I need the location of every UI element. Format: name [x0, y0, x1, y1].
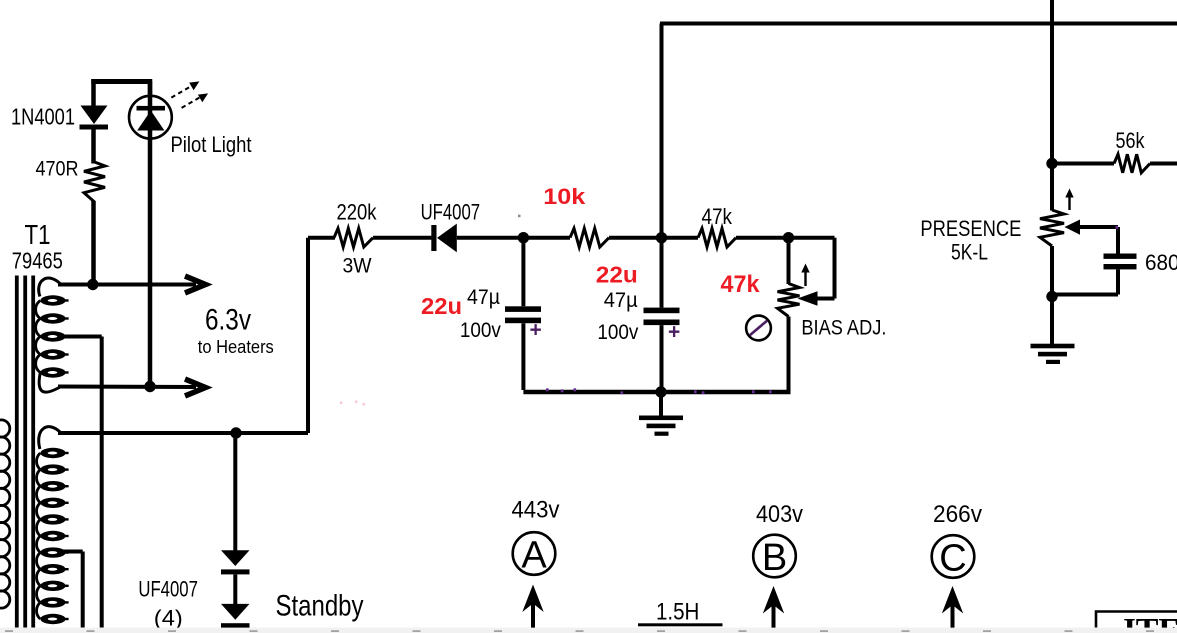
- capacitor 680n: [1104, 254, 1137, 259]
- wire node1 down: [521, 238, 525, 307]
- wire node2 to 47k: [665, 236, 698, 240]
- transformer HT winding: [39, 427, 61, 449]
- wire 10k to node2: [609, 236, 658, 240]
- wire wiper to cap: [1079, 225, 1118, 229]
- svg-text:470R: 470R: [36, 158, 79, 181]
- svg-text:T1: T1: [25, 219, 51, 250]
- capacitor C1 47u: [505, 306, 541, 312]
- potentiometer PRESENCE 5K-L: [1040, 210, 1064, 246]
- svg-text:BIAS ADJ.: BIAS ADJ.: [801, 317, 886, 340]
- svg-text:Standby: Standby: [276, 590, 364, 623]
- diode standby 1: [221, 550, 250, 566]
- wire node3 to pot: [787, 240, 791, 284]
- svg-text:PRESENCE: PRESENCE: [920, 216, 1021, 241]
- wire bias top loop: [789, 236, 835, 240]
- svg-text:47k: 47k: [702, 204, 733, 229]
- arrow A: [531, 600, 535, 633]
- terminal B: [753, 535, 796, 578]
- svg-text:to Heaters: to Heaters: [198, 337, 274, 357]
- wire LED down: [148, 139, 153, 386]
- arrow B: [772, 601, 776, 633]
- svg-text:C: C: [939, 538, 966, 580]
- wire 47k to node3: [736, 236, 785, 240]
- LED pilot light circle: [129, 96, 172, 139]
- potentiometer BIAS 47k: [778, 284, 800, 317]
- presence wiper arrow: [1065, 220, 1081, 235]
- transformer heater winding: [39, 278, 61, 296]
- LED light arrow 2: [182, 97, 202, 108]
- ground 2: [1031, 344, 1075, 349]
- wire heater center tap: [62, 335, 102, 339]
- wire HT tap mid: [62, 550, 83, 554]
- arrow heater 2: [185, 379, 206, 396]
- svg-text:1N4001: 1N4001: [11, 104, 75, 130]
- svg-text:22u: 22u: [421, 293, 462, 319]
- svg-text:10k: 10k: [543, 184, 586, 209]
- resistor 56k: [1114, 154, 1150, 173]
- wire main vertical top: [660, 24, 664, 308]
- junction dot presence bottom: [1046, 291, 1057, 302]
- svg-text:443v: 443v: [512, 497, 560, 524]
- wire C2 down: [660, 325, 664, 392]
- wire node1 to 10k: [527, 236, 570, 240]
- speck gray: [518, 215, 521, 218]
- svg-text:+: +: [668, 321, 680, 344]
- terminal A: [513, 532, 556, 575]
- arrow heater 1: [185, 276, 206, 293]
- terminal C: [932, 535, 975, 578]
- junction dot node3: [783, 232, 794, 243]
- svg-text:403v: 403v: [756, 501, 803, 528]
- svg-text:UF4007: UF4007: [138, 577, 198, 602]
- svg-text:47k: 47k: [721, 271, 761, 298]
- wire C1 down: [521, 323, 525, 390]
- screw bias: [746, 316, 771, 341]
- resistor 470R: [84, 162, 105, 202]
- wire riser 220k: [306, 238, 310, 433]
- svg-text:5K-L: 5K-L: [951, 240, 988, 265]
- transformer core: [15, 276, 19, 628]
- junction dot tap1: [87, 279, 98, 290]
- svg-text:3W: 3W: [343, 255, 372, 278]
- svg-text:B: B: [762, 537, 787, 579]
- junction dot node2: [656, 232, 667, 243]
- wire top rail: [660, 22, 1177, 26]
- wire pot to bottom: [787, 317, 791, 393]
- junction dot standby: [230, 427, 241, 438]
- svg-text:266v: 266v: [933, 501, 982, 528]
- ground 1: [659, 392, 663, 416]
- resistor 220k: [334, 228, 373, 247]
- wire pot bottom: [1050, 246, 1054, 345]
- wire bottom bus: [523, 390, 790, 395]
- svg-text:22u: 22u: [596, 262, 638, 288]
- wire cap down: [1116, 269, 1120, 294]
- svg-text:UF4007: UF4007: [421, 200, 481, 225]
- diode UF4007: [431, 225, 436, 251]
- wire heater tap 2: [58, 385, 196, 390]
- wire presence vertical: [1050, 0, 1054, 211]
- LED triangle: [137, 111, 164, 131]
- wire HT tap: [58, 431, 308, 435]
- wire resistor to tap: [91, 201, 96, 286]
- specks: [621, 391, 624, 394]
- transformer primary winding: [0, 420, 10, 437]
- JTF box: [1096, 612, 1177, 628]
- LED cathode bar: [137, 106, 166, 111]
- diode standby 2: [221, 604, 250, 620]
- svg-text:220k: 220k: [337, 200, 378, 225]
- presence up arrow: [1068, 195, 1070, 210]
- junction dot ground1: [655, 386, 666, 397]
- wire to 56k: [1056, 162, 1114, 166]
- wire LED through: [148, 81, 153, 140]
- svg-text:1.5H: 1.5H: [656, 599, 699, 626]
- capacitor C2 47u: [644, 308, 680, 314]
- wire 220k to diode: [373, 236, 432, 240]
- resistor 10k: [570, 228, 609, 247]
- bias wiper arrow: [798, 291, 818, 306]
- svg-text:A: A: [521, 535, 547, 577]
- wire diode to resistor: [91, 130, 96, 164]
- svg-text:56k: 56k: [1116, 128, 1146, 153]
- svg-text:47µ: 47µ: [604, 289, 638, 312]
- wire heater tap 1: [58, 283, 196, 287]
- svg-text:100v: 100v: [597, 321, 638, 344]
- junction dot node1: [518, 232, 529, 243]
- wire standby drop: [233, 433, 237, 551]
- bias up arrow: [804, 270, 806, 286]
- junction dot presence: [1046, 158, 1057, 169]
- svg-text:79465: 79465: [12, 248, 63, 274]
- resistor 47k: [698, 228, 736, 247]
- wire diode to node1: [457, 236, 520, 240]
- svg-text:680n: 680n: [1145, 250, 1177, 275]
- junction dot LED return: [144, 381, 155, 392]
- svg-text:Pilot Light: Pilot Light: [171, 132, 252, 157]
- svg-text:(4): (4): [154, 606, 183, 631]
- svg-text:47µ: 47µ: [467, 286, 500, 309]
- wire top loop: [91, 79, 152, 84]
- wire between diodes: [233, 575, 237, 605]
- svg-text:100v: 100v: [460, 319, 501, 342]
- window strip: [0, 628, 1177, 633]
- svg-text:6.3v: 6.3v: [205, 304, 251, 337]
- svg-text:+: +: [530, 319, 542, 342]
- LED light arrow 1: [171, 85, 192, 97]
- diode D_pilot 1N4001: [81, 106, 108, 125]
- arrow C: [951, 601, 955, 633]
- wire 56k right: [1150, 162, 1177, 166]
